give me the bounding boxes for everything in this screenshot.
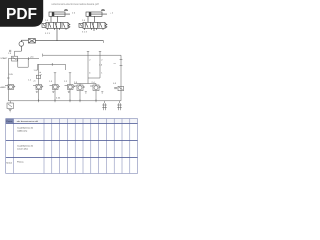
svg-text:Cuadrilateros de: Cuadrilateros de xyxy=(17,127,34,130)
T stub a xyxy=(54,73,56,85)
supply end stub xyxy=(103,41,105,43)
signal join wire xyxy=(88,77,100,79)
inline restrictor on branch xyxy=(36,75,40,78)
left rail wire xyxy=(7,59,9,101)
table column line b xyxy=(43,119,45,174)
table header bottom line xyxy=(6,122,138,124)
svg-text:Senal: Senal xyxy=(6,162,12,164)
valve 1.2 xyxy=(33,85,43,90)
svg-text:5 1 3: 5 1 3 xyxy=(82,32,88,34)
air source circle 0.1 xyxy=(19,40,24,51)
valve exhaust ticks xyxy=(36,91,104,93)
schematic labels xyxy=(0,13,116,100)
bracket wire xyxy=(38,64,66,70)
valve 2.3 xyxy=(74,85,85,91)
PDF badge xyxy=(0,0,43,27)
signal wire x88 xyxy=(87,52,89,79)
loop ticks xyxy=(120,60,123,66)
exhaust symbol 2 xyxy=(117,101,122,110)
table header band xyxy=(44,119,138,124)
signal wire x100 xyxy=(99,52,101,79)
valve 2.4 xyxy=(90,85,101,91)
cylinder 1.0 xyxy=(49,9,70,16)
junction ticks upper bus xyxy=(28,57,30,60)
branch wire x38 xyxy=(38,64,40,84)
valve 0.3 (on loop) xyxy=(114,86,123,90)
T stub b xyxy=(69,73,71,85)
valve 1.1 (5/2 way) xyxy=(42,22,70,28)
step diagram table xyxy=(6,119,138,174)
valve 1.3 xyxy=(50,85,60,90)
valve 2.1 port ticks xyxy=(85,28,104,30)
junction box under bus xyxy=(18,59,28,67)
valve 2.1 port stub xyxy=(93,28,95,31)
wire valve 1.1 to supply xyxy=(56,28,58,40)
svg-text:Cuadrilateros de: Cuadrilateros de xyxy=(17,145,34,148)
table column line a xyxy=(13,119,15,174)
bottom bus wire xyxy=(8,100,121,102)
wire from source to start valve xyxy=(15,51,22,56)
svg-text:rodillo (2s): rodillo (2s) xyxy=(17,130,27,133)
table row line 2 xyxy=(6,156,138,158)
bottom bus ticks xyxy=(39,99,97,102)
cylinder 2.0 port wires xyxy=(87,16,89,22)
rail tick xyxy=(7,77,10,79)
page background xyxy=(0,0,149,198)
svg-text:solucionario-electroneumatica-: solucionario-electroneumatica-basica.pdf xyxy=(51,2,98,6)
signal line long xyxy=(43,54,121,101)
valve 1.1 port ticks xyxy=(48,28,67,30)
svg-text:abc denominacion del: abc denominacion del xyxy=(17,121,39,123)
svg-text:PDF: PDF xyxy=(6,6,37,23)
cylinder 1.0 port wires xyxy=(50,16,52,22)
stubs to valves xyxy=(80,84,96,86)
wire to valve Va xyxy=(87,78,89,84)
bracket tick xyxy=(51,63,53,66)
svg-text:vaiven (3s): vaiven (3s) xyxy=(17,149,28,151)
valve 2.1 (5/2 way) xyxy=(79,22,107,28)
table grid columns xyxy=(52,119,130,174)
upper bus wire xyxy=(8,58,39,60)
svg-text:Piezas: Piezas xyxy=(17,161,24,163)
table row line 1 xyxy=(6,139,138,141)
check ticks xyxy=(9,50,11,52)
supply wire xyxy=(35,40,103,42)
table header fill cell 1 xyxy=(6,119,14,124)
svg-text:Pasos: Pasos xyxy=(6,121,13,123)
filter/service unit 0.2 xyxy=(21,39,35,43)
exhaust symbol 1 xyxy=(102,101,107,110)
valve ARRI (roller) xyxy=(5,85,15,90)
limit valve 1.5 (bottom left) xyxy=(7,101,14,112)
svg-text:5 1 3: 5 1 3 xyxy=(45,33,51,35)
table outer border xyxy=(6,119,138,174)
side wire y83.5 xyxy=(74,83,96,85)
valve 2.2 xyxy=(65,85,75,90)
table header fill cell 2 xyxy=(14,119,45,124)
svg-text:START: START xyxy=(0,57,8,60)
cylinder 2.0 xyxy=(86,9,107,16)
svg-text:ARRI: ARRI xyxy=(0,86,6,89)
start valve 1.4 xyxy=(12,56,18,61)
table texts xyxy=(6,121,38,165)
